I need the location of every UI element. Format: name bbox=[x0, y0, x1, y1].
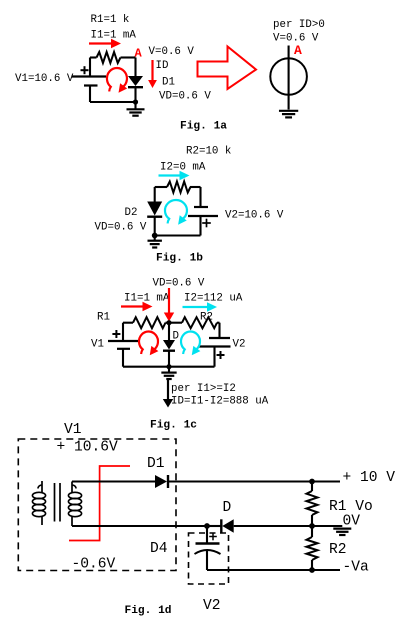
svg-text:D1: D1 bbox=[147, 456, 165, 472]
svg-text:Fig. 1a: Fig. 1a bbox=[180, 121, 227, 133]
svg-text:Fig. 1c: Fig. 1c bbox=[150, 420, 197, 432]
svg-text:VD=0.6 V: VD=0.6 V bbox=[95, 222, 147, 234]
svg-text:A: A bbox=[294, 43, 302, 58]
svg-text:V2: V2 bbox=[233, 339, 246, 351]
svg-text:V1=10.6 V: V1=10.6 V bbox=[15, 73, 74, 85]
svg-text:I1=1 mA: I1=1 mA bbox=[124, 293, 170, 305]
svg-text:-Va: -Va bbox=[343, 560, 370, 576]
svg-text:V=0.6 V: V=0.6 V bbox=[149, 46, 195, 58]
svg-text:ID: ID bbox=[156, 60, 169, 72]
svg-text:+ 10.6V: + 10.6V bbox=[57, 440, 119, 456]
svg-text:V2=10.6 V: V2=10.6 V bbox=[225, 210, 284, 222]
svg-text:V2: V2 bbox=[203, 598, 221, 614]
svg-text:V1: V1 bbox=[91, 339, 104, 351]
svg-text:Fig. 1b: Fig. 1b bbox=[156, 253, 203, 265]
svg-text:per ID>0: per ID>0 bbox=[273, 19, 325, 31]
svg-text:D2: D2 bbox=[125, 207, 138, 219]
svg-text:Fig. 1d: Fig. 1d bbox=[125, 605, 172, 617]
svg-text:ID=I1-I2=888 uA: ID=I1-I2=888 uA bbox=[171, 396, 269, 408]
svg-text:V1: V1 bbox=[64, 422, 82, 438]
svg-text:D: D bbox=[223, 500, 232, 516]
svg-text:I1=1 mA: I1=1 mA bbox=[91, 30, 137, 42]
svg-text:D1: D1 bbox=[162, 77, 175, 89]
svg-text:R1: R1 bbox=[97, 312, 110, 324]
svg-text:VD=0.6 V: VD=0.6 V bbox=[159, 91, 211, 103]
svg-text:R2: R2 bbox=[329, 542, 347, 558]
svg-text:+ 10 V: + 10 V bbox=[343, 470, 396, 486]
svg-text:per I1>=I2: per I1>=I2 bbox=[171, 383, 236, 395]
svg-text:VD=0.6 V: VD=0.6 V bbox=[153, 278, 205, 290]
svg-text:R1=1 k: R1=1 k bbox=[91, 14, 130, 26]
svg-text:D4: D4 bbox=[150, 541, 168, 557]
svg-text:I2=112 uA: I2=112 uA bbox=[184, 293, 243, 305]
svg-text:0V: 0V bbox=[343, 514, 361, 530]
svg-text:I2=0 mA: I2=0 mA bbox=[160, 162, 206, 174]
svg-text:R2=10 k: R2=10 k bbox=[186, 146, 231, 158]
